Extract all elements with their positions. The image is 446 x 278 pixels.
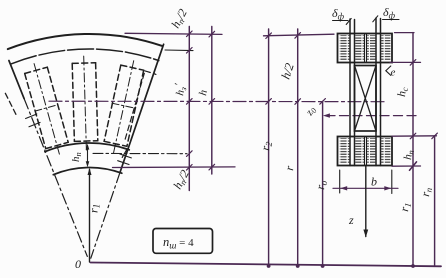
z axis [365, 166, 367, 237]
sector second rim arc [11, 49, 158, 64]
flange gap lines right pair [375, 18, 377, 166]
top-right extension line [264, 34, 335, 36]
slot 3 dashed outline [104, 65, 144, 146]
sector right edge [120, 44, 164, 172]
slot 1 dashed outline [25, 67, 68, 148]
flange gap lines left pair [349, 19, 351, 166]
left edge hatch ticks [26, 114, 37, 119]
bore level line [113, 166, 236, 169]
b dimension extension lines [339, 170, 341, 193]
dimension line h/2 and r (x=297.7) [297, 29, 299, 266]
slot 2 dashed outline [72, 63, 98, 142]
baseline [91, 263, 442, 267]
slot 3 cross tick [112, 103, 136, 108]
pole shoe bottom extension [390, 61, 421, 63]
pole shoe (top hatched block) [338, 34, 393, 63]
band outer arc (slot-bottom circle) [45, 143, 129, 152]
right edge hatch ticks [120, 154, 131, 158]
top surface extension line [125, 33, 222, 34]
svg-text:0: 0 [75, 257, 81, 271]
right partial slot [125, 71, 156, 139]
band mid dashed line [93, 152, 187, 154]
slot 1 cross tick [35, 105, 58, 111]
b dimension line [333, 187, 398, 189]
dimension line h_p/2 & h_z & bottom h_p/2 (x=189) [188, 27, 190, 191]
band height dimension h_p arrows [87, 146, 89, 165]
dimension line h (x=212) [211, 27, 213, 175]
band inner arc (bore) [53, 167, 122, 174]
yoke (bottom hatched block) [338, 137, 393, 166]
slot-top extension line [165, 49, 193, 52]
n_sh = 4 box [153, 229, 213, 254]
dimension line r0 (x=322.6) [322, 101, 324, 266]
svg-text:z: z [348, 213, 354, 227]
yoke bottom extension [392, 165, 421, 167]
left partial slot [4, 90, 16, 114]
svg-text:b: b [371, 175, 377, 189]
sector outer arc [8, 34, 162, 49]
slot 1 centerline [34, 64, 59, 155]
main horizontal centerline [49, 100, 384, 103]
sector left edge [9, 61, 24, 99]
dimension line r_p (x=434.6) [434, 136, 436, 267]
e dimension bracket [386, 66, 391, 75]
yoke top extension [392, 135, 437, 137]
radius r1 line with arrow [89, 170, 91, 263]
svg-text:e: e [391, 67, 396, 79]
dimension line h_c / h_p / r1 (x=413) [395, 32, 415, 34]
pole edge dashed line with z0 arrow [326, 115, 418, 117]
field coil (X box) [355, 66, 377, 132]
dimension line r2 (x=268.6) [268, 29, 270, 266]
slot 3 centerline [114, 61, 134, 153]
slot 2 centerline [84, 56, 87, 150]
